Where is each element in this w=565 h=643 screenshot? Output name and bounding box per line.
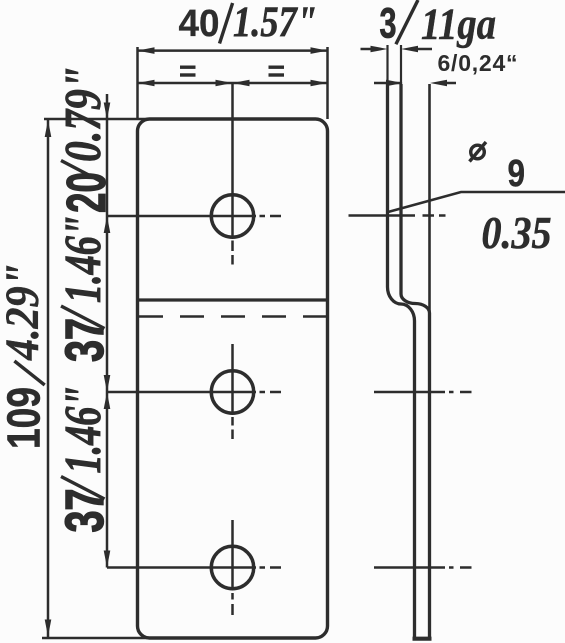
svg-text:109: 109 bbox=[0, 387, 50, 449]
svg-text:6/0,24“: 6/0,24“ bbox=[438, 50, 518, 76]
svg-text:1.57": 1.57" bbox=[233, 0, 317, 46]
svg-text:11ga: 11ga bbox=[421, 0, 496, 49]
svg-text:37: 37 bbox=[55, 318, 115, 362]
svg-text:4.29": 4.29" bbox=[0, 263, 49, 361]
svg-text:1.46": 1.46" bbox=[55, 386, 112, 474]
svg-text:37: 37 bbox=[55, 489, 115, 533]
svg-text:3: 3 bbox=[380, 0, 397, 48]
svg-text:40: 40 bbox=[179, 3, 220, 45]
svg-text:0.79": 0.79" bbox=[55, 66, 112, 162]
svg-text:20: 20 bbox=[55, 172, 117, 213]
svg-text:0.35: 0.35 bbox=[482, 207, 552, 258]
svg-text:1.46": 1.46" bbox=[55, 215, 112, 303]
svg-text:9: 9 bbox=[508, 153, 526, 195]
